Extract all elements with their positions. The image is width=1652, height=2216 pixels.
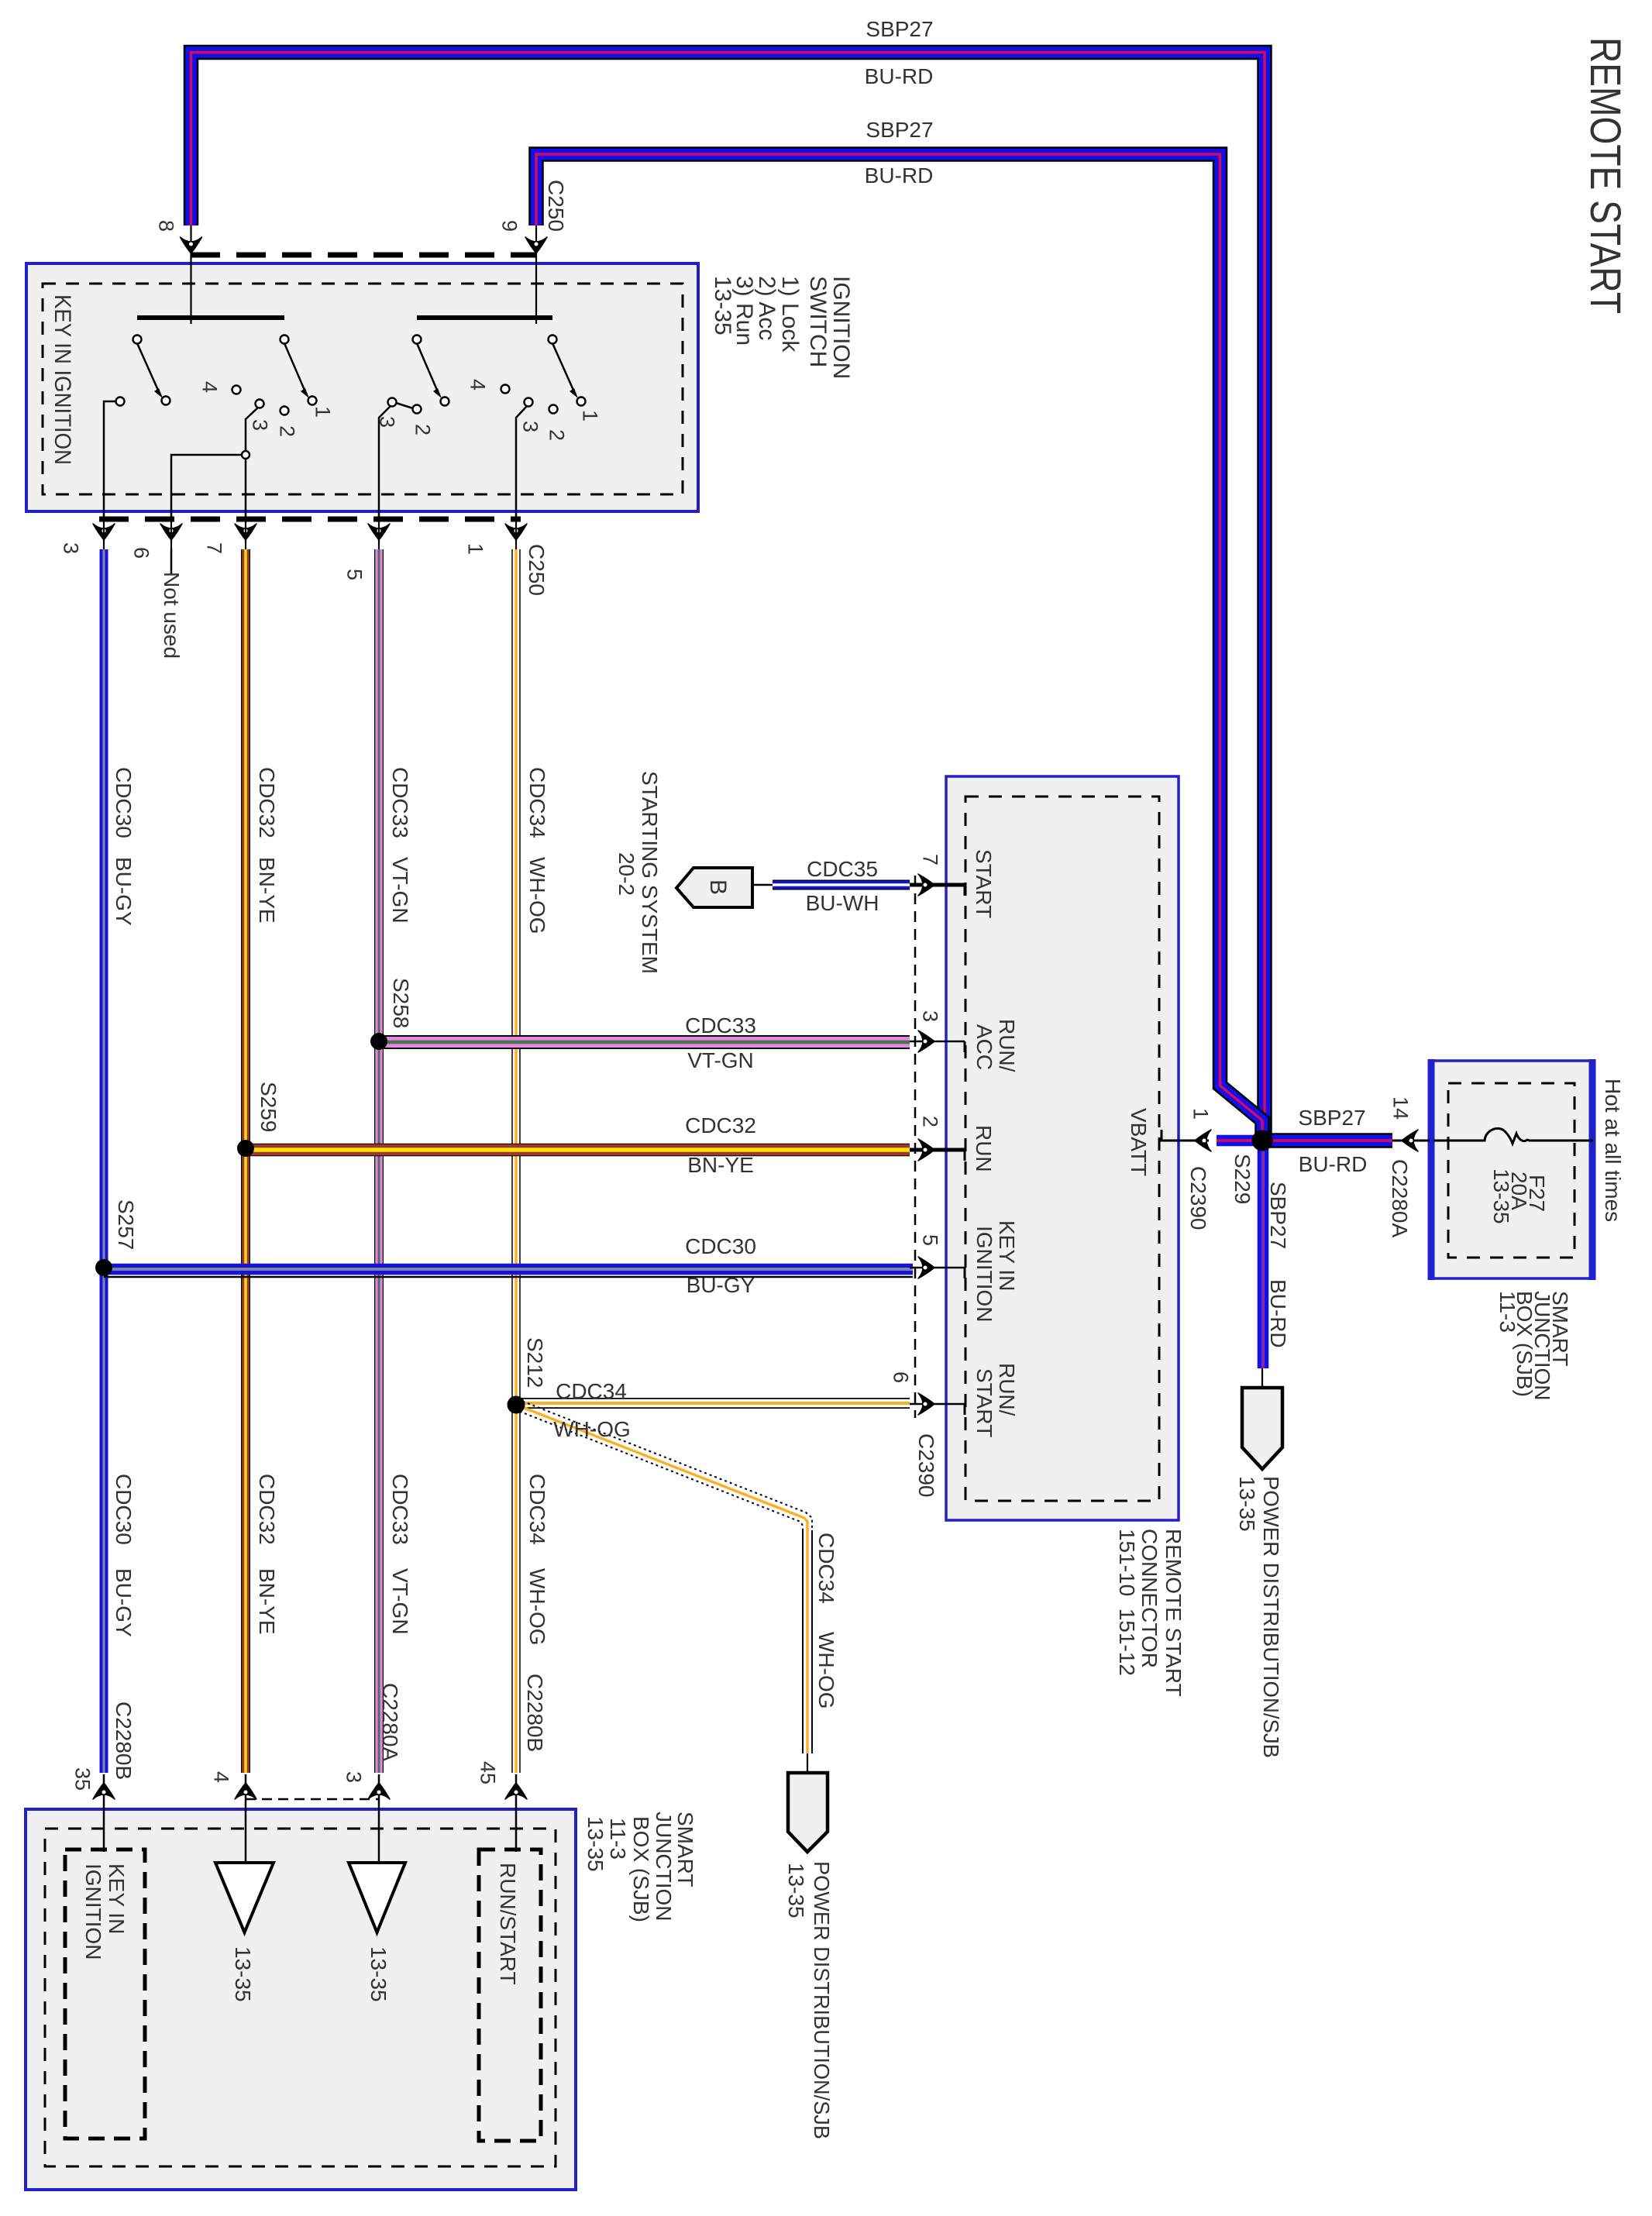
- svg-text:13-35: 13-35: [231, 1946, 255, 2002]
- wire contact to pin3: [104, 401, 115, 521]
- RUN/START sub-box: [479, 1850, 541, 2141]
- VBATT pin stub: [1159, 1140, 1209, 1142]
- svg-text:VT-GN: VT-GN: [687, 1048, 754, 1072]
- svg-text:3: 3: [918, 1010, 941, 1022]
- svg-text:20-2: 20-2: [614, 852, 638, 896]
- svg-text:RUN/START: RUN/START: [496, 1863, 520, 1985]
- connector dashed line C2390 (left): [914, 876, 917, 1418]
- pin 45 into SJB: [515, 1774, 518, 1852]
- svg-text:7: 7: [202, 542, 225, 554]
- pin 3 into SJB: [378, 1774, 380, 1863]
- svg-text:BU-RD: BU-RD: [1266, 1279, 1290, 1348]
- svg-text:BU-WH: BU-WH: [806, 891, 879, 915]
- svg-text:13-35: 13-35: [583, 1816, 607, 1872]
- svg-text:SBP27: SBP27: [866, 17, 933, 41]
- svg-text:1: 1: [1189, 1108, 1212, 1120]
- svg-text:6: 6: [129, 547, 153, 559]
- svg-text:C2280B: C2280B: [112, 1702, 136, 1780]
- wire SBP27 BU-RD W1 (top run, right vertical to S229 and pentagon): [191, 53, 1265, 1143]
- wire stub to pentagon right: [1261, 1368, 1263, 1389]
- off-page pentagon POWER DISTRIBUTION/SJB right: [1242, 1388, 1282, 1469]
- svg-text:CDC34: CDC34: [525, 1474, 549, 1545]
- junction S258: [370, 1033, 387, 1050]
- pin 4 into SJB: [245, 1774, 247, 1863]
- svg-text:BN-YE: BN-YE: [255, 857, 279, 924]
- pin 14 arrow + labels: [1392, 1140, 1430, 1142]
- wire CDC32 BN-YE vertical: [241, 549, 250, 1773]
- svg-text:VT-GN: VT-GN: [388, 857, 412, 924]
- svg-text:1: 1: [463, 543, 487, 555]
- svg-text:JUNCTION: JUNCTION: [652, 1812, 676, 1922]
- svg-text:7: 7: [918, 854, 941, 865]
- svg-text:3: 3: [248, 419, 271, 431]
- pin 1 arrow (C250 bottom): [505, 524, 527, 540]
- ignition switch inner dashed boundary: [43, 284, 683, 494]
- wire SBP27 BU-RD W2 (second run, merges at S229): [536, 154, 1262, 1136]
- svg-text:BN-YE: BN-YE: [687, 1153, 754, 1177]
- svg-text:CONNECTOR: CONNECTOR: [1137, 1529, 1162, 1668]
- svg-text:9: 9: [497, 220, 521, 232]
- pin 2 arrow: [918, 1139, 934, 1161]
- smart junction box bottom: [26, 1809, 576, 2190]
- svg-text:5: 5: [342, 569, 366, 580]
- pin 6 arrow (C250 bottom): [160, 524, 182, 540]
- wire SBP27 BU-RD VBATT to S229: [1217, 1135, 1262, 1147]
- pin 2 stub (RS connector): [910, 1148, 965, 1152]
- triangle 13-35 left: [215, 1863, 274, 1932]
- svg-text:3: 3: [59, 542, 82, 554]
- svg-text:WH-OG: WH-OG: [814, 1632, 838, 1709]
- switch common bar B: [417, 315, 552, 320]
- svg-text:VT-GN: VT-GN: [388, 1568, 412, 1635]
- svg-text:S259: S259: [256, 1082, 280, 1132]
- svg-text:KEY IN: KEY IN: [995, 1220, 1019, 1291]
- wire CDC34 WH-OG vertical: [511, 549, 521, 1773]
- connector dashed line C250 top: [191, 253, 536, 258]
- svg-text:RUN: RUN: [972, 1125, 996, 1172]
- svg-text:4: 4: [466, 379, 489, 391]
- pin 3 stub (RS connector): [910, 1041, 965, 1043]
- svg-text:RUN/: RUN/: [995, 1019, 1019, 1072]
- remote start connector box: [946, 776, 1179, 1520]
- junction S212: [508, 1396, 525, 1414]
- terminal circles group A: [133, 335, 142, 344]
- svg-text:REMOTE START: REMOTE START: [1581, 37, 1630, 314]
- svg-text:Not used: Not used: [160, 572, 184, 659]
- pin 8 arrow: [181, 237, 202, 253]
- pin 7 stub (RS connector): [910, 883, 965, 887]
- pin 35 into SJB: [103, 1774, 105, 1852]
- svg-text:13-35: 13-35: [1235, 1476, 1259, 1532]
- svg-text:13-35: 13-35: [367, 1946, 391, 2002]
- svg-text:VBATT: VBATT: [1127, 1108, 1151, 1176]
- off-page arrow B (starting system): [676, 868, 752, 907]
- pin 6 stub (RS connector): [910, 1403, 965, 1406]
- ignition switch box: [26, 263, 698, 511]
- wire contact3B to pin1: [516, 406, 527, 521]
- svg-text:KEY IN: KEY IN: [105, 1863, 129, 1934]
- svg-text:CDC35: CDC35: [807, 857, 878, 881]
- svg-text:CDC32: CDC32: [685, 1113, 756, 1137]
- svg-text:S257: S257: [114, 1199, 138, 1250]
- svg-text:13-35: 13-35: [784, 1863, 808, 1918]
- remote start connector inner dashed: [965, 797, 1159, 1501]
- svg-text:WH-OG: WH-OG: [525, 857, 549, 934]
- junction circle: [242, 451, 250, 459]
- svg-text:B: B: [705, 879, 731, 895]
- switch wiper arm A2: [284, 343, 306, 394]
- svg-text:SBP27: SBP27: [866, 118, 933, 142]
- wire SBP27 BU-RD S229 to fuse pin 14: [1262, 1133, 1392, 1148]
- svg-text:SMART: SMART: [673, 1812, 697, 1887]
- svg-text:2: 2: [411, 424, 434, 435]
- SJB inner dashed: [45, 1829, 556, 2166]
- pin 3 arrow (C250 bottom): [93, 524, 115, 540]
- svg-text:BU-GY: BU-GY: [112, 1568, 136, 1637]
- junction S259: [237, 1140, 254, 1157]
- svg-text:BU-RD: BU-RD: [865, 64, 934, 88]
- svg-text:1: 1: [578, 410, 601, 422]
- svg-text:S229: S229: [1230, 1154, 1254, 1204]
- connector dashed line C250 bottom: [99, 517, 521, 522]
- triangle 13-35 right: [349, 1863, 405, 1932]
- pin 9 arrow: [525, 237, 547, 253]
- junction S229: [1252, 1130, 1273, 1151]
- pin 5 stub (RS connector): [910, 1267, 965, 1269]
- svg-text:SBP27: SBP27: [1298, 1106, 1365, 1130]
- svg-text:2: 2: [275, 425, 298, 437]
- svg-text:13-35: 13-35: [710, 276, 735, 335]
- switch wiper arm A1: [137, 343, 160, 394]
- svg-text:CDC33: CDC33: [685, 1013, 756, 1037]
- svg-text:SBP27: SBP27: [1266, 1182, 1290, 1249]
- svg-text:C2390: C2390: [1186, 1166, 1210, 1230]
- svg-text:8: 8: [154, 220, 177, 232]
- svg-text:S258: S258: [389, 978, 413, 1028]
- svg-text:2: 2: [918, 1116, 941, 1127]
- svg-text:C2390: C2390: [914, 1433, 938, 1498]
- pin 5 arrow (C250 bottom): [368, 524, 390, 540]
- switch common bar A: [137, 315, 284, 320]
- switch closed link B: [396, 403, 413, 408]
- fuse inner dashed box: [1448, 1083, 1575, 1258]
- svg-text:START: START: [972, 1368, 996, 1437]
- svg-text:BU-RD: BU-RD: [865, 163, 934, 188]
- svg-text:11-3: 11-3: [606, 1818, 630, 1860]
- svg-text:CDC30: CDC30: [112, 1474, 136, 1545]
- svg-text:C250: C250: [525, 544, 549, 596]
- svg-text:CDC30: CDC30: [685, 1234, 756, 1258]
- svg-text:2: 2: [545, 429, 568, 441]
- KEY IN IGNITION sub-box: [65, 1850, 145, 2139]
- pin 3 arrow: [918, 1031, 934, 1052]
- svg-text:5: 5: [918, 1234, 941, 1246]
- svg-text:S212: S212: [523, 1337, 547, 1388]
- wire CDC30 BU-GY vertical: [100, 549, 108, 1773]
- svg-text:REMOTE START: REMOTE START: [1162, 1529, 1186, 1697]
- svg-text:CDC34: CDC34: [556, 1379, 627, 1403]
- svg-text:POWER DISTRIBUTION/SJB: POWER DISTRIBUTION/SJB: [810, 1861, 834, 2139]
- svg-text:CDC30: CDC30: [112, 767, 136, 838]
- wire CDC33 VT-GN horizontal to RS pin 3: [379, 1035, 910, 1049]
- svg-text:START: START: [972, 849, 996, 918]
- fuse F27 element: [1433, 1128, 1593, 1144]
- svg-text:IGNITION: IGNITION: [972, 1226, 996, 1322]
- svg-text:BN-YE: BN-YE: [255, 1568, 279, 1635]
- VBATT arrow: [1195, 1130, 1211, 1151]
- svg-text:IGNITION: IGNITION: [81, 1863, 105, 1960]
- svg-text:14: 14: [1389, 1096, 1412, 1120]
- svg-text:RUN/: RUN/: [995, 1363, 1019, 1416]
- svg-text:6: 6: [889, 1371, 912, 1383]
- svg-text:3: 3: [518, 421, 542, 432]
- svg-text:CDC33: CDC33: [388, 767, 412, 838]
- pin 7 arrow: [918, 874, 934, 896]
- wire pin8 feeder: [190, 225, 191, 324]
- smart junction box (fuse): [1428, 1061, 1595, 1278]
- wire CDC34 WH-OG diagonal to pentagon: [518, 1399, 812, 1753]
- wire CDC30 BU-GY horizontal to RS pin 5: [104, 1276, 913, 1278]
- connector dashed line C2280 bottom: [246, 1798, 379, 1801]
- svg-text:C2280A: C2280A: [378, 1683, 402, 1762]
- wire CDC33 VT-GN vertical: [374, 549, 384, 1773]
- svg-text:4: 4: [209, 1771, 232, 1783]
- wire CDC32 BN-YE horizontal to RS pin 2: [246, 1144, 910, 1157]
- wire pin9 feeder: [535, 225, 537, 324]
- svg-text:C250: C250: [544, 180, 568, 232]
- switch wiper arm B2: [552, 343, 575, 394]
- svg-text:ACC: ACC: [972, 1024, 996, 1070]
- svg-text:SWITCH: SWITCH: [805, 276, 831, 367]
- svg-text:IGNITION: IGNITION: [828, 276, 854, 379]
- wire CDC34 WH-OG horizontal to RS pin 6: [516, 1398, 910, 1409]
- svg-text:1: 1: [311, 406, 334, 418]
- svg-text:13-35: 13-35: [1489, 1168, 1513, 1224]
- svg-text:3: 3: [342, 1771, 365, 1783]
- svg-text:Hot at all times: Hot at all times: [1601, 1079, 1625, 1222]
- svg-text:STARTING SYSTEM: STARTING SYSTEM: [638, 771, 662, 974]
- svg-text:BU-GY: BU-GY: [687, 1273, 755, 1297]
- off-page pentagon POWER DISTRIBUTION/SJB bottom: [788, 1773, 828, 1852]
- svg-text:C2280B: C2280B: [523, 1674, 547, 1752]
- wire closed link to pin5: [379, 406, 391, 521]
- junction S257: [95, 1259, 112, 1276]
- svg-text:45: 45: [476, 1761, 499, 1784]
- svg-text:KEY IN IGNITION: KEY IN IGNITION: [50, 294, 75, 465]
- svg-text:151-10 151-12: 151-10 151-12: [1115, 1529, 1139, 1676]
- terminal circles group B: [413, 335, 422, 344]
- svg-text:35: 35: [71, 1767, 94, 1791]
- pin 5 arrow: [918, 1257, 934, 1278]
- svg-text:CDC33: CDC33: [388, 1474, 412, 1545]
- svg-text:4: 4: [198, 381, 221, 393]
- svg-text:CDC34: CDC34: [525, 767, 549, 838]
- wire CDC35 BU-WH: [752, 884, 775, 886]
- wire contact3A to junction and pins 6/7: [246, 408, 258, 451]
- switch wiper arm B1: [417, 343, 439, 394]
- svg-text:BU-GY: BU-GY: [112, 857, 136, 926]
- pin 6 arrow: [918, 1393, 934, 1415]
- svg-text:1) Lock: 1) Lock: [777, 276, 803, 353]
- svg-text:CDC34: CDC34: [814, 1533, 838, 1604]
- wire stub to pentagon bottom: [807, 1753, 808, 1774]
- svg-text:11-3: 11-3: [1495, 1291, 1519, 1333]
- svg-text:BOX (SJB): BOX (SJB): [629, 1816, 653, 1922]
- svg-text:CDC32: CDC32: [255, 1474, 279, 1545]
- pin 7 arrow (C250 bottom): [235, 524, 256, 540]
- svg-text:WH-OG: WH-OG: [525, 1568, 549, 1646]
- svg-text:POWER DISTRIBUTION/SJB: POWER DISTRIBUTION/SJB: [1259, 1476, 1283, 1758]
- svg-text:C2280A: C2280A: [1388, 1159, 1412, 1238]
- svg-text:CDC32: CDC32: [255, 767, 279, 838]
- svg-text:BU-RD: BU-RD: [1299, 1152, 1368, 1176]
- wire Not used stub: [170, 549, 173, 575]
- svg-text:WH-OG: WH-OG: [553, 1417, 631, 1441]
